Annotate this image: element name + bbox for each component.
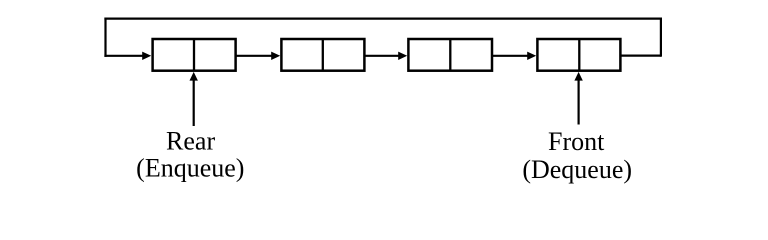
svg-text:(Dequeue): (Dequeue) bbox=[522, 155, 632, 184]
wire: feedback top horizontal bbox=[104, 18, 662, 20]
wire: node4 output to right feedback corner bbox=[621, 54, 661, 56]
wire: node2 next to node3 with arrowhead bbox=[364, 55, 399, 57]
node 1 divider bbox=[193, 39, 195, 71]
wire: feedback right vertical bbox=[660, 18, 662, 57]
node 3 divider bbox=[449, 39, 451, 71]
wire: node3 next to node4 with arrowhead bbox=[492, 55, 529, 57]
svg-text:Front: Front bbox=[548, 127, 605, 156]
node 2 divider bbox=[322, 39, 324, 71]
node 2 box bbox=[281, 39, 364, 71]
front pointer up-arrow bbox=[577, 78, 579, 125]
node 4 divider bbox=[578, 39, 580, 71]
svg-text:Rear: Rear bbox=[166, 126, 215, 155]
rear pointer up-arrow bbox=[193, 78, 195, 126]
wire: feedback left vertical bbox=[104, 18, 106, 57]
node 1 box (Rear) bbox=[153, 39, 236, 71]
wire: feedback into node1 with arrowhead bbox=[104, 55, 143, 57]
node 3 box bbox=[408, 39, 492, 71]
svg-text:(Enqueue): (Enqueue) bbox=[136, 153, 244, 182]
wire: node1 next to node2 with arrowhead bbox=[236, 55, 273, 57]
node 4 box (Front) bbox=[537, 39, 620, 71]
